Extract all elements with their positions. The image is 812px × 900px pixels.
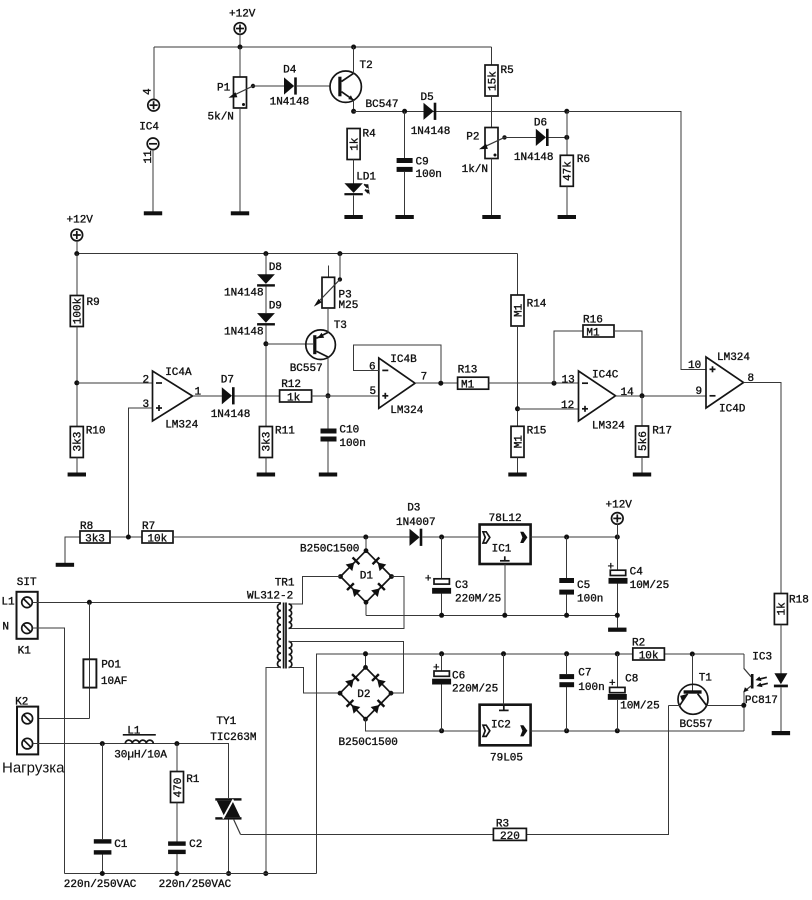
svg-text:B250C1500: B250C1500 xyxy=(300,544,359,556)
svg-text:+12V: +12V xyxy=(67,215,94,227)
svg-text:12: 12 xyxy=(561,400,574,412)
svg-text:10M/25: 10M/25 xyxy=(620,701,660,713)
svg-text:1k: 1k xyxy=(349,137,361,151)
svg-text:220n/250VAC: 220n/250VAC xyxy=(159,879,232,891)
regulator IC2 79L05 xyxy=(480,654,744,765)
svg-text:10k: 10k xyxy=(147,534,167,546)
node rail-D8 xyxy=(263,251,268,256)
node C1 tap xyxy=(100,741,105,746)
svg-text:100n: 100n xyxy=(578,682,604,694)
node C5 bottom xyxy=(564,613,569,618)
wire K1 N down xyxy=(32,628,64,873)
svg-text:C4: C4 xyxy=(630,567,644,579)
svg-text:T2: T2 xyxy=(360,60,373,72)
svg-text:LM324: LM324 xyxy=(165,420,198,432)
terminal block K2 load xyxy=(15,697,38,755)
wire D1 left to upper secondary top xyxy=(289,577,341,605)
ground R15 xyxy=(508,473,526,477)
wire to IC4A pin2 xyxy=(77,382,153,384)
svg-text:C7: C7 xyxy=(578,668,591,680)
node T1 base tap xyxy=(690,652,695,657)
svg-text:R13: R13 xyxy=(458,365,478,377)
svg-text:C6: C6 xyxy=(452,671,465,683)
resistor R16 M1 feedback xyxy=(554,315,642,396)
capacitor C7 100n xyxy=(559,654,604,731)
svg-text:30µH/10A: 30µH/10A xyxy=(114,750,167,762)
svg-text:IC2: IC2 xyxy=(491,720,511,732)
svg-text:R6: R6 xyxy=(577,154,590,166)
svg-text:D1: D1 xyxy=(360,570,374,582)
svg-text:470: 470 xyxy=(173,778,185,798)
svg-text:IC4: IC4 xyxy=(139,122,159,134)
wire 0V return line psu xyxy=(366,614,618,616)
svg-text:10k: 10k xyxy=(639,651,659,663)
ground P1 xyxy=(231,211,249,215)
svg-text:TIC263M: TIC263M xyxy=(210,732,256,744)
svg-text:+12V: +12V xyxy=(606,500,633,512)
svg-text:+: + xyxy=(425,574,432,586)
svg-text:LM324: LM324 xyxy=(390,405,423,417)
ground R11 xyxy=(257,473,275,477)
node C6 top xyxy=(439,651,444,656)
resistor R17 5k6 xyxy=(636,396,673,473)
wire T3 base xyxy=(266,343,313,345)
node rail-P3 xyxy=(337,251,342,256)
svg-text:C9: C9 xyxy=(416,157,429,169)
wire to IC4C pin12 xyxy=(518,408,579,410)
diode D5 1N4148 xyxy=(411,92,451,138)
node T2 emitter xyxy=(351,109,356,114)
node rail-R9 xyxy=(74,251,79,256)
svg-text:L1: L1 xyxy=(127,726,141,738)
op-amp IC4C LM324 xyxy=(561,370,634,433)
IC4 supply pin 4 xyxy=(139,47,159,134)
svg-text:BC547: BC547 xyxy=(366,99,399,111)
ground C10 xyxy=(319,473,337,477)
svg-text:8: 8 xyxy=(748,373,755,385)
node primary bottom xyxy=(263,871,268,876)
svg-text:14: 14 xyxy=(621,387,635,399)
svg-text:C2: C2 xyxy=(189,839,202,851)
svg-text:BC557: BC557 xyxy=(680,719,713,731)
svg-text:4: 4 xyxy=(143,88,155,95)
svg-text:M25: M25 xyxy=(339,300,359,312)
capacitor C3 220M/25 electrolytic xyxy=(425,537,501,615)
svg-text:R15: R15 xyxy=(527,426,547,438)
svg-text:T1: T1 xyxy=(699,673,713,685)
node C1 bottom xyxy=(100,871,105,876)
wire IC4D output to right edge drop xyxy=(744,383,782,594)
node R1 tap xyxy=(174,741,179,746)
svg-text:R10: R10 xyxy=(86,426,106,438)
wire lower secondary bottom to D2 left xyxy=(289,668,340,694)
resistor R6 47k xyxy=(560,111,590,215)
capacitor C9 100n xyxy=(397,111,442,215)
node IC4B out xyxy=(438,381,443,386)
resistor R10 3k3 xyxy=(70,426,105,473)
svg-text:1N4148: 1N4148 xyxy=(224,288,264,300)
svg-text:6: 6 xyxy=(369,362,376,374)
svg-text:220M/25: 220M/25 xyxy=(455,594,501,606)
wire IC4A pin3 from R7/R8 node xyxy=(128,408,152,537)
svg-text:LM324: LM324 xyxy=(717,352,750,364)
svg-text:B250C1500: B250C1500 xyxy=(339,737,398,749)
node D6-R6 xyxy=(564,135,569,140)
svg-text:1k: 1k xyxy=(287,393,301,405)
svg-text:R5: R5 xyxy=(501,65,514,77)
node R16 tap xyxy=(552,381,557,386)
node R17 tap xyxy=(640,393,645,398)
svg-text:10: 10 xyxy=(688,360,701,372)
triac TY1 TIC263M xyxy=(210,716,256,874)
resistor R14 M1 xyxy=(511,254,547,427)
svg-text:1N4007: 1N4007 xyxy=(396,517,436,529)
svg-text:5k6: 5k6 xyxy=(638,431,650,451)
svg-text:13: 13 xyxy=(562,374,575,386)
svg-text:220n/250VAC: 220n/250VAC xyxy=(64,879,137,891)
svg-text:Нагрузка: Нагрузка xyxy=(2,760,65,777)
ground IC4 xyxy=(144,211,162,215)
diode D9 1N4148 xyxy=(224,301,282,427)
diode D8 1N4148 xyxy=(224,254,282,314)
potentiometer P3 M25 xyxy=(314,254,359,312)
node D5-R6 xyxy=(564,109,569,114)
svg-text:79L05: 79L05 xyxy=(490,753,523,765)
svg-text:T3: T3 xyxy=(334,320,347,332)
node IC1 gnd xyxy=(502,613,507,618)
svg-text:R9: R9 xyxy=(87,297,100,309)
svg-text:10AF: 10AF xyxy=(101,676,127,688)
svg-text:R14: R14 xyxy=(527,299,547,311)
wire triac gate line xyxy=(241,833,494,835)
svg-text:IC3: IC3 xyxy=(752,652,772,664)
node D9-T3 base xyxy=(263,341,268,346)
wire to IC4D pin10 (right side drop) xyxy=(567,111,706,369)
node D1 plus tap xyxy=(363,535,368,540)
svg-text:R11: R11 xyxy=(275,426,295,438)
potentiometer P1 xyxy=(208,47,256,211)
capacitor C1 220n/250VAC xyxy=(94,744,128,874)
svg-text:3k3: 3k3 xyxy=(262,432,274,452)
ground psu xyxy=(608,628,626,632)
svg-text:D7: D7 xyxy=(221,375,234,387)
svg-text:1N4148: 1N4148 xyxy=(211,409,251,421)
svg-text:220M/25: 220M/25 xyxy=(452,684,498,696)
node C8 top xyxy=(615,651,620,656)
svg-text:D4: D4 xyxy=(283,65,297,77)
+12V supply symbol output xyxy=(606,500,633,538)
svg-text:N: N xyxy=(2,622,9,634)
svg-text:100n: 100n xyxy=(416,169,442,181)
svg-text:1N4148: 1N4148 xyxy=(270,97,310,109)
svg-text:IC1: IC1 xyxy=(492,544,512,556)
resistor R11 3k3 xyxy=(259,426,295,473)
svg-text:R1: R1 xyxy=(186,774,200,786)
node C2 bottom xyxy=(174,871,179,876)
terminal block K1 mains xyxy=(1,577,37,658)
svg-text:47k: 47k xyxy=(563,161,575,181)
node C8 bottom xyxy=(615,728,620,733)
wire IC4C output to pin9 xyxy=(616,395,707,397)
svg-text:K1: K1 xyxy=(18,646,32,658)
svg-text:11: 11 xyxy=(143,150,155,164)
+12V supply symbol section2 xyxy=(67,215,94,254)
wire IC4B output xyxy=(415,382,458,384)
wire lower secondary top to D2 right xyxy=(289,642,404,694)
svg-text:100n: 100n xyxy=(339,438,365,450)
svg-text:TR1: TR1 xyxy=(275,578,295,590)
resistor R3 220 xyxy=(493,819,526,844)
LED LD1 xyxy=(344,172,376,216)
+12V supply symbol top xyxy=(229,9,256,48)
svg-text:3: 3 xyxy=(143,399,150,411)
resistor R18 1k xyxy=(774,594,808,674)
diode D4 1N4148 xyxy=(253,65,330,109)
ground R8 xyxy=(56,563,74,567)
bridge rectifier D2 B250C1500 xyxy=(338,654,398,749)
wire D1 right to upper secondary bottom xyxy=(289,577,404,629)
svg-text:R17: R17 xyxy=(652,426,672,438)
diode D3 1N4007 xyxy=(396,503,480,546)
wire K1 L1 to primary top xyxy=(32,601,281,603)
svg-text:C3: C3 xyxy=(455,580,468,592)
svg-text:M1: M1 xyxy=(513,303,525,317)
node C6 bottom xyxy=(439,728,444,733)
resistor R8 3k3 xyxy=(65,521,110,563)
svg-text:2: 2 xyxy=(143,374,150,386)
wire emitter line xyxy=(354,110,567,112)
transistor T3 BC557 xyxy=(290,308,347,396)
node rail-T2 xyxy=(351,45,356,50)
wire +12V rail top xyxy=(154,46,492,48)
wire D2 minus line to IC2 in xyxy=(366,719,480,731)
ground R10 xyxy=(68,473,86,477)
svg-text:3k3: 3k3 xyxy=(85,534,105,546)
fuse PO1 10AF xyxy=(83,602,127,718)
transistor T1 BC557 xyxy=(669,654,744,731)
capacitor C8 10M/25 electrolytic xyxy=(608,654,660,731)
diode D6 1N4148 xyxy=(505,118,567,165)
wire IC4B feedback loop xyxy=(353,345,440,383)
svg-text:IC4A: IC4A xyxy=(165,367,192,379)
node D2 plus xyxy=(363,651,368,656)
svg-text:C1: C1 xyxy=(114,839,128,851)
resistor R5 15k xyxy=(485,47,514,128)
node C9 top xyxy=(402,109,407,114)
ground R6 xyxy=(558,215,576,219)
svg-text:D8: D8 xyxy=(269,262,282,274)
optocoupler IC3 PC817 xyxy=(743,652,778,731)
svg-text:L1: L1 xyxy=(1,597,15,609)
wire R8-R7 xyxy=(110,536,142,538)
svg-text:D2: D2 xyxy=(357,689,370,701)
svg-text:+12V: +12V xyxy=(229,9,256,21)
svg-text:M1: M1 xyxy=(461,380,475,392)
capacitor C5 100n xyxy=(559,537,603,615)
wire primary bottom down xyxy=(266,667,281,873)
svg-text:1: 1 xyxy=(195,386,202,398)
node R7-R8-pin3 xyxy=(126,535,131,540)
svg-text:5k/N: 5k/N xyxy=(208,112,234,124)
op-amp IC4A LM324 xyxy=(143,367,202,432)
node C3 bottom xyxy=(439,613,444,618)
svg-text:C5: C5 xyxy=(577,580,590,592)
IC4 supply pin 11 xyxy=(143,138,159,211)
svg-text:D6: D6 xyxy=(534,118,547,130)
svg-text:TY1: TY1 xyxy=(216,716,236,728)
capacitor C10 100n xyxy=(321,396,366,473)
svg-text:R4: R4 xyxy=(363,129,377,141)
svg-text:C8: C8 xyxy=(625,674,638,686)
svg-text:BC557: BC557 xyxy=(290,363,323,375)
resistor R1 470 xyxy=(171,744,200,842)
svg-text:1k: 1k xyxy=(777,602,789,616)
svg-text:IC4C: IC4C xyxy=(592,370,619,382)
resistor R4 1k xyxy=(347,129,376,184)
node rail-P1 xyxy=(238,45,243,50)
op-amp IC4B LM324 xyxy=(369,354,427,417)
node C4 bottom xyxy=(615,613,620,618)
svg-text:1k/N: 1k/N xyxy=(462,164,488,176)
svg-text:220: 220 xyxy=(500,831,520,843)
svg-text:LM324: LM324 xyxy=(592,421,625,433)
svg-text:M1: M1 xyxy=(586,328,600,340)
resistor R9 100k xyxy=(70,254,99,427)
svg-text:P2: P2 xyxy=(466,132,479,144)
svg-text:9: 9 xyxy=(696,386,703,398)
LED inside IC3 xyxy=(774,673,788,731)
inductor L1 30uH/10A xyxy=(114,726,167,762)
capacitor C2 220n/250VAC xyxy=(168,839,202,874)
ground LD1 xyxy=(344,215,362,219)
svg-text:1N4148: 1N4148 xyxy=(514,152,554,164)
wire IC4A output xyxy=(193,395,222,397)
svg-text:WL312-2: WL312-2 xyxy=(247,591,293,603)
svg-text:100k: 100k xyxy=(73,297,85,324)
wire 0V line section4 xyxy=(317,654,744,874)
node IC2 gnd xyxy=(501,651,506,656)
bridge rectifier D1 B250C1500 xyxy=(300,537,394,615)
node C7 bottom xyxy=(564,728,569,733)
node C7 top xyxy=(564,651,569,656)
wire bottom mains rail xyxy=(64,873,316,875)
wire +12V rail section2 xyxy=(77,253,518,255)
node C5 top xyxy=(564,535,569,540)
resistor R15 M1 xyxy=(511,426,546,473)
node R14-R15 divider xyxy=(515,406,520,411)
node PO1 tap xyxy=(87,600,92,605)
ground C9 xyxy=(395,215,413,219)
wire PO1 to K2 xyxy=(33,718,90,720)
node C4 top / +12V out xyxy=(615,535,620,540)
svg-text:IC4D: IC4D xyxy=(719,404,746,416)
svg-text:PO1: PO1 xyxy=(101,660,121,672)
wire T1 emitter drop to gate line xyxy=(526,705,668,834)
svg-text:3k3: 3k3 xyxy=(73,432,85,452)
node R12-T3-C10-pin5 xyxy=(326,393,331,398)
resistor R13 M1 xyxy=(458,365,579,392)
node R9-R10 divider xyxy=(74,380,79,385)
svg-text:M1: M1 xyxy=(513,435,525,449)
svg-text:IC4B: IC4B xyxy=(390,354,417,366)
svg-text:PC817: PC817 xyxy=(745,695,778,707)
svg-text:1N4148: 1N4148 xyxy=(411,126,451,138)
op-amp IC4D LM324 xyxy=(688,352,754,416)
svg-text:C10: C10 xyxy=(339,425,359,437)
transistor T2 BC547 xyxy=(330,47,399,111)
svg-text:7: 7 xyxy=(421,372,428,384)
node T1 collector / IC3 emitter xyxy=(741,703,746,708)
svg-text:10M/25: 10M/25 xyxy=(630,580,670,592)
diode D7 1N4148 xyxy=(211,375,280,422)
resistor R2 10k xyxy=(632,638,664,663)
svg-text:R18: R18 xyxy=(789,595,809,607)
capacitor C6 220M/25 electrolytic xyxy=(432,654,498,731)
potentiometer P2 xyxy=(462,128,507,216)
resistor R7 10k xyxy=(142,521,410,546)
svg-text:100n: 100n xyxy=(577,594,603,606)
svg-text:D9: D9 xyxy=(269,301,282,313)
capacitor C4 10M/25 electrolytic xyxy=(608,537,670,628)
ground IC3 LED xyxy=(772,731,790,735)
svg-text:1N4148: 1N4148 xyxy=(224,327,264,339)
ground P2 xyxy=(482,215,500,219)
node C3 top xyxy=(439,535,444,540)
svg-text:SIT: SIT xyxy=(17,577,37,589)
svg-text:5: 5 xyxy=(370,386,377,398)
wire K2 bottom to triac xyxy=(33,744,229,799)
resistor R12 1k xyxy=(280,379,379,405)
svg-text:LD1: LD1 xyxy=(356,172,376,184)
transformer TR1 WL312-2 xyxy=(247,578,295,669)
svg-text:D5: D5 xyxy=(421,92,434,104)
node TY1 bottom xyxy=(226,871,231,876)
svg-text:D3: D3 xyxy=(407,503,420,515)
svg-text:15k: 15k xyxy=(487,71,499,91)
svg-text:P1: P1 xyxy=(217,83,231,95)
ground R17 xyxy=(633,473,651,477)
regulator IC1 78L12 xyxy=(480,513,618,615)
